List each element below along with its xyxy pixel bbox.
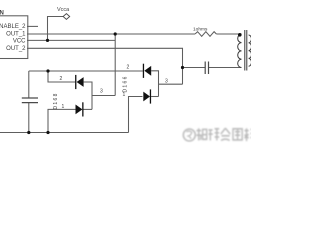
wire D166 pin1 (129, 97, 143, 133)
wire D168 pin3 (92, 95, 115, 97)
wire OUT_2 (27, 48, 183, 84)
pin stub ENABLE_2 (27, 25, 38, 27)
svg-text:3: 3 (100, 89, 103, 95)
transformer T1 primary winding (238, 34, 242, 67)
wire W1 (29, 70, 143, 72)
wire node A vertical (114, 34, 116, 96)
wire D166 cathode top (151, 71, 158, 97)
wire D168 pin2 (48, 71, 75, 82)
wire D168 pin1 (48, 109, 76, 132)
capacitor C2 plates (205, 62, 208, 75)
svg-text:Vcca: Vcca (57, 7, 70, 13)
wire OUT_1 to transformer (216, 33, 241, 35)
power symbol Vcca diamond (63, 14, 70, 20)
wire cap C2 right (209, 67, 242, 69)
wire D168 cathode top (84, 82, 92, 109)
wire D168 cathode bottom (84, 108, 93, 110)
svg-text:2: 2 (60, 76, 63, 82)
node junction Vcca/VCC (46, 39, 49, 42)
svg-text:OUT_2: OUT_2 (6, 46, 26, 52)
svg-text:OUT_1: OUT_1 (6, 32, 26, 38)
wire VCC (27, 39, 115, 41)
watermark logo (183, 128, 255, 141)
svg-text:1: 1 (62, 104, 65, 110)
svg-text:VCC: VCC (13, 39, 26, 45)
wire D166 cathode bottom (151, 96, 158, 98)
transformer T1 core (245, 30, 247, 71)
wire ground rail (0, 132, 129, 134)
node junction OUT_2/cap (181, 66, 184, 69)
svg-text:3: 3 (165, 79, 168, 85)
node junction rail/D168 (46, 131, 49, 134)
transformer polarity dot (238, 33, 242, 37)
capacitor C1 plates (22, 98, 38, 103)
diode D166 top (points left) (143, 64, 151, 78)
diode D166 bottom (points right) (143, 89, 151, 103)
diode D168 top (points left) (75, 75, 84, 89)
wire cap C1 top (28, 71, 30, 98)
svg-text:NABLE_2: NABLE_2 (0, 24, 26, 30)
watermark logo (183, 129, 195, 141)
svg-text:1ohms: 1ohms (193, 27, 208, 33)
IC U1 box (0, 16, 28, 59)
svg-text:N: N (0, 10, 4, 16)
wire Vcca (48, 17, 64, 41)
node junction OUT_1 (114, 32, 117, 35)
transformer T1 secondary winding (249, 35, 252, 66)
node junction rail/C1 (27, 131, 30, 134)
wire OUT_1 (27, 33, 195, 35)
wire cap C1 bottom (28, 103, 30, 133)
wire D166 pin3 (159, 83, 183, 85)
diode D168 bottom (points right) (76, 102, 84, 116)
wire cap C2 left (183, 67, 206, 69)
svg-text:D166: D166 (122, 75, 128, 92)
svg-text:2: 2 (127, 64, 130, 70)
svg-text:D168: D168 (53, 92, 59, 109)
node junction W1/D168 (46, 69, 49, 72)
resistor R1 1ohms (195, 32, 216, 37)
